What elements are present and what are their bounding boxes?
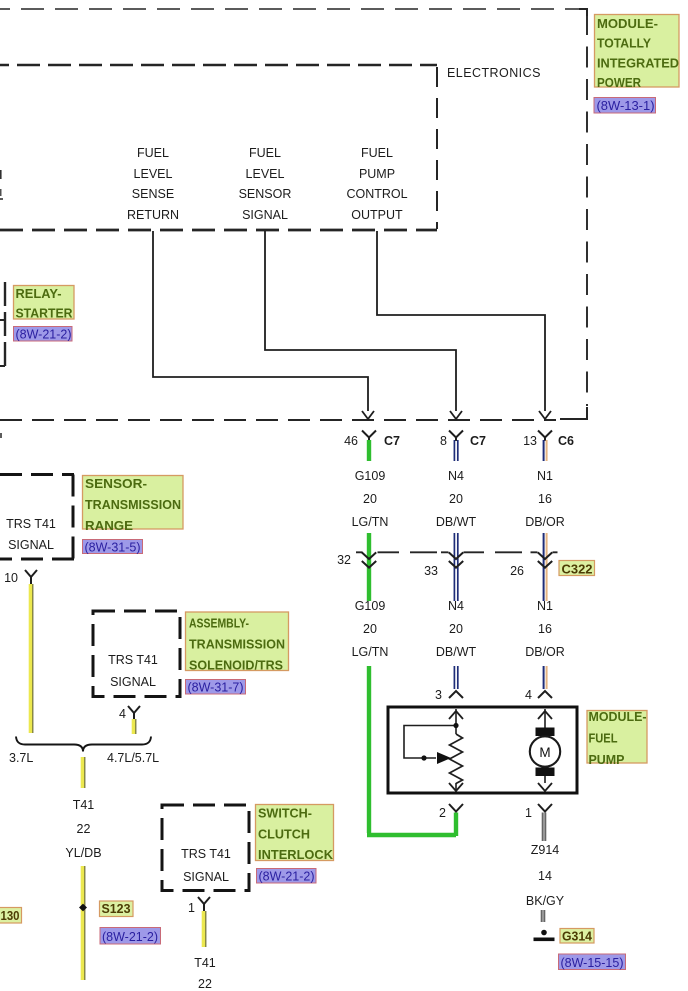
svg-text:TRANSMISSION: TRANSMISSION [189,638,285,652]
svg-text:INTEGRATED: INTEGRATED [597,56,679,70]
svg-text:(8W-21-2): (8W-21-2) [259,870,315,884]
svg-text:(8W-21-2): (8W-21-2) [16,327,72,341]
svg-text:(8W-31-7): (8W-31-7) [188,680,244,694]
svg-text:SWITCH-: SWITCH- [258,807,312,821]
svg-text:CLUTCH: CLUTCH [258,827,310,841]
svg-text:G314: G314 [562,929,592,943]
svg-text:STARTER: STARTER [16,307,73,321]
svg-text:POWER: POWER [597,76,641,90]
svg-text:(8W-31-5): (8W-31-5) [85,540,141,554]
svg-text:RELAY-: RELAY- [16,287,62,301]
svg-text:ASSEMBLY-: ASSEMBLY- [189,617,249,631]
svg-text:MODULE-: MODULE- [589,710,647,724]
svg-text:TRANSMISSION: TRANSMISSION [85,498,181,512]
svg-text:M: M [539,745,550,760]
svg-text:RANGE: RANGE [85,519,133,533]
svg-text:C322: C322 [562,562,593,576]
svg-text:PUMP: PUMP [589,753,625,767]
svg-text:S123: S123 [102,902,131,916]
svg-text:SENSOR-: SENSOR- [85,477,147,491]
svg-text:130: 130 [1,909,20,923]
svg-text:MODULE-: MODULE- [597,17,658,31]
svg-text:(8W-15-15): (8W-15-15) [561,956,624,970]
svg-text:(8W-13-1): (8W-13-1) [597,99,655,113]
svg-text:(8W-21-2): (8W-21-2) [102,930,158,944]
svg-text:SOLENOID/TRS: SOLENOID/TRS [189,659,283,673]
svg-text:INTERLOCK: INTERLOCK [258,848,333,862]
svg-text:TOTALLY: TOTALLY [597,37,652,51]
svg-text:FUEL: FUEL [589,732,618,746]
